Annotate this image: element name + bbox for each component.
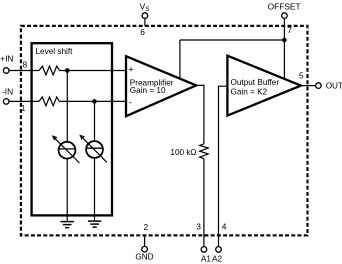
wire I1 to ground <box>66 159 68 222</box>
pin 8 +IN circle <box>3 68 9 74</box>
current source I1 arrow <box>55 139 79 163</box>
svg-text:OFFSET: OFFSET <box>268 1 301 11</box>
pin 7 OFFSET circle <box>282 13 288 19</box>
svg-text:GND: GND <box>135 252 153 261</box>
wire -IN node down to current source I2 <box>94 101 96 141</box>
svg-text:8: 8 <box>23 59 28 69</box>
wire +IN node down to current source I1 <box>66 71 68 143</box>
pin 2 GND lead <box>144 235 146 246</box>
svg-text:100 kΩ: 100 kΩ <box>170 148 196 157</box>
svg-text:A2: A2 <box>212 254 222 263</box>
wire buffer output to OUT <box>301 85 316 87</box>
wire +IN to resistor <box>9 70 39 72</box>
level shift box <box>32 43 112 215</box>
wire preamp output to A1 pin <box>196 85 204 143</box>
resistor 100 kOhm <box>200 144 209 159</box>
svg-text:7: 7 <box>287 25 292 35</box>
pin 7 OFFSET lead <box>283 18 285 79</box>
wire resistor to preamp - input <box>60 100 127 102</box>
svg-text:+: + <box>128 64 134 75</box>
ground G2 <box>88 221 102 227</box>
svg-text:-IN: -IN <box>2 87 13 97</box>
svg-text:Gain = 10: Gain = 10 <box>130 86 166 95</box>
ground G1 <box>60 222 74 228</box>
pin 5 OUT circle <box>316 83 322 89</box>
svg-text:5: 5 <box>299 71 304 81</box>
svg-text:2: 2 <box>144 222 149 232</box>
dashed device boundary <box>21 26 308 236</box>
wire offset feedback horizontal <box>180 39 285 41</box>
pin 3 A1 circle <box>201 247 207 253</box>
pin 2 GND circle <box>142 246 148 252</box>
svg-text:Level shift: Level shift <box>36 47 74 56</box>
pin 1 -IN circle <box>3 99 9 105</box>
pin 4 A2 circle <box>216 247 222 253</box>
wire resistor to preamp + input <box>60 70 127 72</box>
wire I2 to ground <box>94 158 96 221</box>
junction dot at offset node <box>282 38 287 43</box>
svg-text:6: 6 <box>140 27 145 37</box>
resistor R- (input, -IN) <box>39 97 59 106</box>
op-amp output buffer A2 <box>227 56 301 116</box>
pin 6 Vs circle <box>142 13 148 19</box>
op-amp preamplifier A1 <box>126 56 196 116</box>
svg-text:1: 1 <box>21 103 26 113</box>
current source I2 circle <box>86 141 103 158</box>
svg-text:Gain = K2: Gain = K2 <box>231 88 268 97</box>
wire buffer input from A2 pin <box>219 86 228 246</box>
pin 6 Vs lead <box>144 18 146 26</box>
wire feedback drop to preamp <box>179 40 181 79</box>
junction dot +IN node <box>65 68 70 73</box>
junction dot -IN node <box>92 99 97 104</box>
current source I2 arrow <box>83 138 107 162</box>
svg-text:-: - <box>129 97 132 108</box>
wire -IN to resistor <box>9 100 39 102</box>
svg-text:3: 3 <box>196 221 201 231</box>
svg-text:4: 4 <box>222 221 227 231</box>
svg-text:Output Buffer: Output Buffer <box>231 78 280 87</box>
current source I2 chord <box>86 147 103 149</box>
resistor R+ (input, +IN) <box>39 66 59 75</box>
current source I1 chord <box>59 148 76 150</box>
wire resistor to pin 3 <box>203 159 205 247</box>
svg-text:OUT: OUT <box>326 82 342 91</box>
svg-text:A1: A1 <box>201 254 211 263</box>
current source I1 circle <box>59 142 76 159</box>
svg-text:+IN: +IN <box>0 54 13 64</box>
